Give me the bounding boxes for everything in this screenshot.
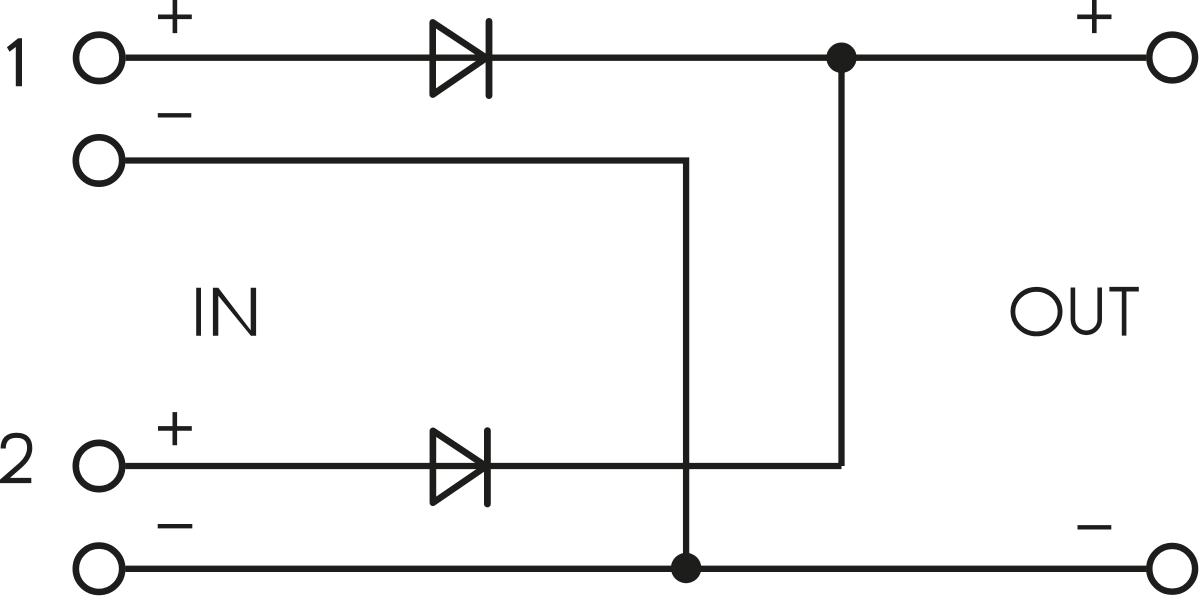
text OUT : letter U — [1073, 288, 1100, 333]
minus sign output - — [1078, 525, 1112, 529]
terminal circle input 2+ — [76, 443, 122, 489]
junction A (top, row1 / vertical) — [826, 43, 856, 73]
terminal circle input 1+ — [76, 35, 122, 81]
plus sign input 2+ — [158, 412, 192, 445]
terminal circle output + — [1149, 35, 1195, 81]
plus sign input 1+ — [158, 0, 192, 33]
diode D2 triangle — [433, 431, 486, 503]
label digit 1 — [7, 38, 22, 86]
text OUT : letter O — [1013, 289, 1060, 334]
wire vertical from row 3 up to junction A — [838, 58, 844, 466]
terminal circle input 1- — [76, 137, 122, 183]
diode D2 cathode bar — [484, 431, 491, 504]
diode D1 cathode bar — [486, 21, 493, 95]
plus sign output + — [1077, 0, 1111, 33]
junction B (bottom, row4 / vertical) — [671, 553, 701, 583]
terminal circle input 2- — [76, 546, 122, 592]
wire input1+ to output+ (row 1) — [126, 55, 1146, 61]
minus sign input 1- — [158, 113, 192, 117]
text IN : letter I — [196, 288, 201, 336]
diode D1 triangle — [433, 22, 487, 94]
terminal circle output - — [1149, 546, 1195, 592]
text OUT : letter T — [1109, 287, 1138, 336]
wire input2+ horizontal (row 3) — [126, 463, 842, 469]
wire input1- horizontal then down (row 2 / vertical drop) — [126, 161, 687, 569]
text IN : letter N — [213, 288, 256, 336]
label digit 2 — [3, 435, 31, 480]
wire input2- to output- (row 4) — [126, 566, 1147, 572]
minus sign input 2- — [158, 524, 193, 528]
